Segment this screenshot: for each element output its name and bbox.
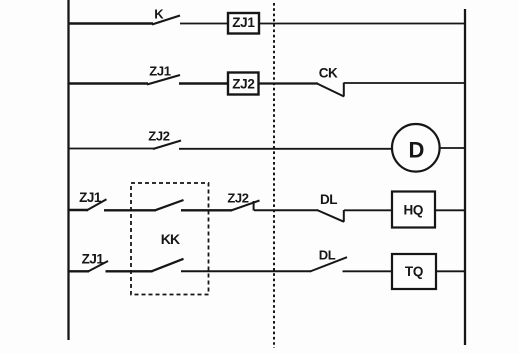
svg-text:ZJ2: ZJ2 [227,190,248,205]
wire rung2 left [68,82,148,84]
switch group box KK [131,183,209,295]
svg-text:ZJ1: ZJ1 [232,15,255,30]
wire rung2 mid [179,82,228,84]
svg-text:CK: CK [319,66,338,81]
wire rung3 left [68,148,154,150]
svg-text:ZJ2: ZJ2 [232,76,254,91]
svg-text:TQ: TQ [405,264,423,279]
svg-text:ZJ1: ZJ1 [82,252,105,267]
svg-text:ZJ2: ZJ2 [148,128,170,143]
left bus rail [67,0,69,340]
wire rung5 left [68,270,89,272]
coil TQ [392,254,436,289]
wire rung2 mid2 [259,82,319,84]
wire rung4 seg5 [344,209,392,211]
wire rung3 right [440,147,464,149]
switch KK rung5 contact [152,259,184,272]
wire rung1 left [68,22,153,25]
contact ZJ2 rung4 [231,201,260,211]
wire rung5 seg3 [181,270,311,272]
svg-text:DL: DL [319,247,336,262]
switch K [152,16,180,25]
svg-text:DL: DL [320,192,337,207]
wire rung4 right [435,209,464,211]
svg-text:D: D [409,137,425,162]
wire rung4 seg3 [181,209,232,211]
contact ZJ1 rung4 [87,199,107,210]
wire rung2 right [344,82,464,84]
relay coil ZJ1 [228,13,259,34]
motor D [392,124,440,172]
wire rung5 right [436,270,464,272]
wire rung3 mid [179,148,392,150]
breaker contact DL rung5 [310,257,347,271]
svg-text:ZJ1: ZJ1 [149,63,171,78]
svg-text:ZJ1: ZJ1 [79,190,102,205]
contact ZJ1 rung2 [147,75,180,85]
wire rung4 seg4 [254,209,318,211]
wire rung1 right [259,23,464,25]
relay coil ZJ2 [228,73,259,95]
wire rung5 seg2 [106,270,153,272]
svg-text:K: K [154,6,164,21]
switch CK [317,83,344,97]
contact ZJ2 rung3 [153,141,181,150]
svg-text:HQ: HQ [403,203,423,218]
svg-text:KK: KK [161,231,180,247]
boundary dotted line [273,3,275,348]
contact ZJ1 rung5 [88,261,109,272]
right bus rail [464,9,466,345]
switch KK rung4 contact [155,200,184,210]
breaker contact DL rung4 [317,210,344,222]
wire rung1 mid [180,23,228,25]
wire rung5 seg4 [343,270,393,272]
coil HQ [392,192,435,228]
wire rung4 left [68,209,88,211]
wire rung4 seg2 [104,209,156,211]
